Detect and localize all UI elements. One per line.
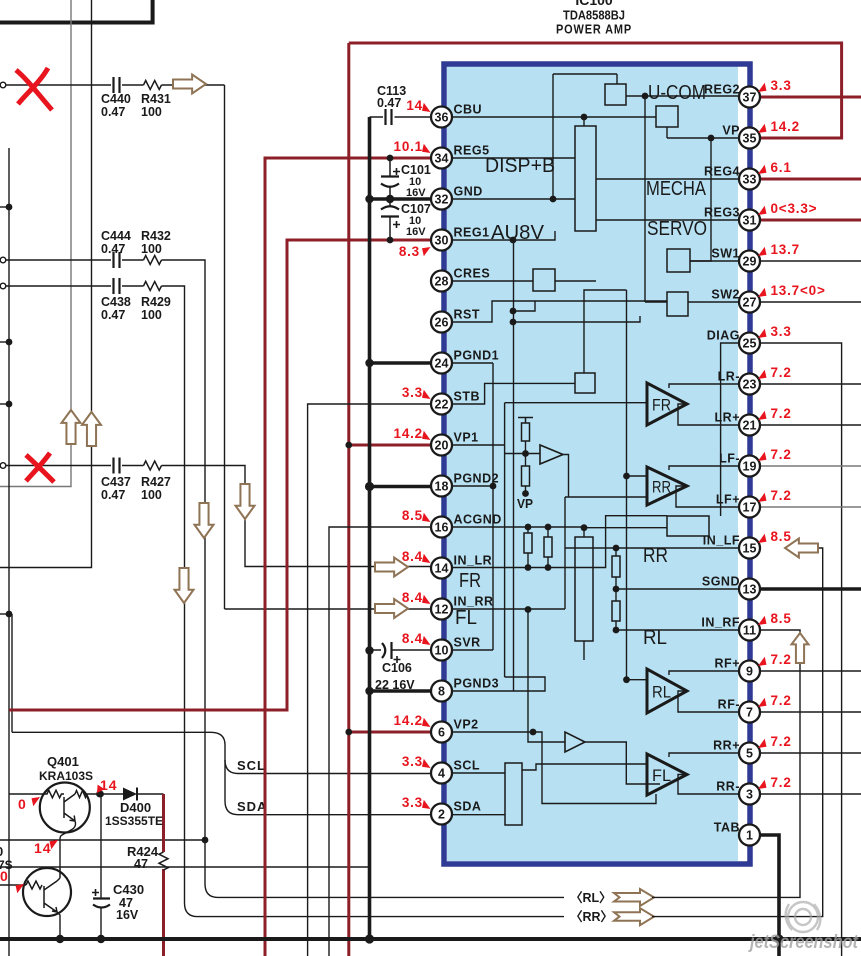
svg-text:20: 20 <box>435 439 449 453</box>
resistor R429 <box>144 282 162 291</box>
capacitor C440 <box>114 77 120 93</box>
wire LR+ to FR tip <box>678 404 738 425</box>
op-amp power RR <box>647 467 687 505</box>
transistor Q401 internals <box>43 790 89 821</box>
svg-text:23: 23 <box>743 378 757 392</box>
pin 35 voltage arrow <box>758 124 767 133</box>
block regulator rect <box>575 126 596 231</box>
svg-text:14.2: 14.2 <box>394 713 423 728</box>
svg-text:SVR: SVR <box>454 636 481 650</box>
wire VP2 internal <box>452 731 533 733</box>
junction dot GND internal <box>550 196 557 203</box>
wire pin9 RF+ out <box>760 670 861 672</box>
svg-text:8: 8 <box>438 685 445 699</box>
wire LR- to FR <box>669 384 738 388</box>
wire R429 to RR line <box>162 286 565 917</box>
block CRES square <box>533 269 555 291</box>
pin 10 voltage arrow <box>422 636 431 645</box>
wire vertical bus A lower <box>0 445 71 487</box>
svg-text:35: 35 <box>743 132 757 146</box>
pin 16 voltage arrow <box>422 513 431 522</box>
wire RST link <box>513 301 535 311</box>
wire REG4 internal <box>596 178 738 180</box>
svg-text:U-COM: U-COM <box>648 82 706 104</box>
pin 3 voltage arrow <box>758 780 767 789</box>
junction dot REG2 <box>642 93 649 100</box>
svg-text:8.5: 8.5 <box>771 611 792 626</box>
capacitor C107 plates <box>381 206 399 216</box>
svg-text:FR: FR <box>652 396 671 415</box>
capacitor C101 plates <box>381 177 399 187</box>
pin 12 circle <box>431 599 452 620</box>
wire pin27 SW2 out <box>760 301 861 303</box>
svg-text:5: 5 <box>746 747 753 761</box>
svg-text:LF+: LF+ <box>716 493 740 507</box>
svg-text:18: 18 <box>435 480 449 494</box>
pin 1 circle <box>739 825 760 846</box>
wire pin29 SW1 out <box>760 260 861 262</box>
svg-text:100: 100 <box>141 242 162 256</box>
junction dot rail TAB <box>774 934 783 943</box>
junction dot rA bottom <box>525 564 532 571</box>
pin 29 voltage arrow <box>758 247 767 256</box>
pin 34 voltage arrow <box>422 144 431 153</box>
svg-text:ACGND: ACGND <box>454 513 502 527</box>
wire SW1 internal <box>690 260 738 262</box>
svg-text:IN_RF: IN_RF <box>701 616 740 630</box>
op-amp power RL <box>647 669 687 713</box>
pin 28 circle <box>431 271 452 292</box>
IC IC100 TDA8588BJ body fill <box>447 66 738 861</box>
svg-text:〈RR〉: 〈RR〉 <box>570 909 613 924</box>
pin 14 circle <box>431 558 452 579</box>
wire pin7 RF- out <box>760 711 861 713</box>
pin 36 voltage arrow <box>422 103 431 112</box>
wire SCL internal <box>452 772 505 774</box>
svg-text:14.2: 14.2 <box>771 119 800 134</box>
svg-text:IN_LR: IN_LR <box>454 554 493 568</box>
wire x513 vertical <box>513 240 515 691</box>
svg-text:14: 14 <box>100 777 118 793</box>
svg-text:13.7<0>: 13.7<0> <box>771 283 826 298</box>
svg-text:RR-: RR- <box>716 780 740 794</box>
power wire vertical x348 <box>347 43 350 956</box>
svg-text:14: 14 <box>34 840 52 856</box>
svg-text:21: 21 <box>743 419 757 433</box>
svg-text:VP1: VP1 <box>454 431 479 445</box>
wire vertical bus B x91 <box>91 0 93 412</box>
power wire pin30 REG1 <box>9 240 431 710</box>
block SW2 square <box>667 292 688 316</box>
svg-text:14: 14 <box>435 562 449 576</box>
svg-text:SW2: SW2 <box>711 288 740 302</box>
junction dot GND bus <box>365 195 373 203</box>
pin 21 circle <box>739 415 760 436</box>
svg-text:SGND: SGND <box>702 575 740 589</box>
svg-text:14.2: 14.2 <box>394 426 423 441</box>
pin 35 circle <box>739 128 760 149</box>
voltage arrow 14 node <box>97 785 105 793</box>
op-amp power FR <box>647 383 687 425</box>
wire op1 input <box>505 453 540 455</box>
wire rC stubs <box>615 548 617 601</box>
svg-text:32: 32 <box>435 193 449 207</box>
wire C444-R432 <box>122 259 144 261</box>
wire STB internal <box>452 383 575 404</box>
pin 14 voltage arrow <box>422 554 431 563</box>
pin 34 circle <box>431 148 452 169</box>
power wire below R424 <box>162 869 165 956</box>
svg-text:6: 6 <box>438 726 445 740</box>
svg-text:7.2: 7.2 <box>771 775 792 790</box>
junction dot op1 in <box>522 450 529 457</box>
wire RST second <box>513 316 640 322</box>
wire vertical x224 to pin12 <box>224 85 226 609</box>
power wire vertical x265 from pin 34 <box>265 158 431 956</box>
svg-text:STB: STB <box>454 390 481 404</box>
wire in4 <box>6 465 111 467</box>
svg-text:30: 30 <box>435 234 449 248</box>
pin 21 voltage arrow <box>758 411 767 420</box>
svg-text:7.2: 7.2 <box>771 365 792 380</box>
svg-text:DISP+B: DISP+B <box>485 155 555 177</box>
block sub square <box>656 106 678 127</box>
svg-text:REG3: REG3 <box>704 206 740 220</box>
svg-text:0: 0 <box>0 844 3 859</box>
svg-text:29: 29 <box>743 255 757 269</box>
pin 10 circle <box>431 640 452 661</box>
wire LF- to RR <box>669 466 738 470</box>
wire pin8 PGND3 thick <box>370 689 432 693</box>
svg-text:27: 27 <box>743 296 757 310</box>
pin 6 voltage arrow <box>422 718 431 727</box>
svg-text:14: 14 <box>406 98 423 113</box>
svg-text:IN_LF: IN_LF <box>703 534 740 548</box>
pin 32 circle <box>431 189 452 210</box>
capacitor C444 <box>114 252 120 268</box>
wire IN_LR internal <box>452 516 667 568</box>
svg-text:FL: FL <box>455 607 477 629</box>
wire C430 top lead <box>100 794 102 898</box>
block resistor rC <box>612 556 620 577</box>
junction dot pin34 wire <box>387 155 394 162</box>
wire op2 out <box>584 641 660 784</box>
svg-text:PGND3: PGND3 <box>454 677 500 691</box>
svg-text:TDA8588BJ: TDA8588BJ <box>563 9 625 23</box>
svg-text:16V: 16V <box>406 226 426 238</box>
svg-text:jetScreenshot: jetScreenshot <box>747 931 859 953</box>
junction dot VP node <box>522 490 529 497</box>
svg-text:17: 17 <box>743 501 757 515</box>
junction dot <box>6 611 13 618</box>
IC IC100 border <box>444 64 750 864</box>
block resistor rA <box>524 533 532 553</box>
svg-text:25: 25 <box>743 337 757 351</box>
svg-text:SCL: SCL <box>237 758 266 773</box>
junction dot C106 <box>365 646 373 654</box>
wire pin37 REG2 out <box>760 96 861 99</box>
voltage arrow Q402 base <box>16 884 25 893</box>
junction dot VP2 <box>345 729 352 736</box>
pin 6 circle <box>431 722 452 743</box>
svg-text:3.3: 3.3 <box>402 754 423 769</box>
wire rect2 stub <box>583 528 585 537</box>
svg-text:12: 12 <box>435 603 449 617</box>
wire pin3 RR- out <box>760 793 861 795</box>
svg-text:100: 100 <box>141 488 162 502</box>
power wire pin6 VP2 branch <box>349 731 431 734</box>
svg-text:SCL: SCL <box>454 759 481 773</box>
wire pin18 PGND2 thick <box>370 485 432 489</box>
svg-text:0.47: 0.47 <box>377 96 401 110</box>
svg-text:0<3.3>: 0<3.3> <box>771 201 818 216</box>
wire STB up <box>584 290 627 373</box>
svg-text:7.2: 7.2 <box>771 652 792 667</box>
pin 5 circle <box>739 743 760 764</box>
svg-text:C101: C101 <box>401 163 431 177</box>
op-amp op2 <box>565 732 585 752</box>
svg-text:Q401: Q401 <box>47 754 79 769</box>
svg-text:SDA: SDA <box>237 799 267 814</box>
diode D400 <box>123 788 137 801</box>
svg-text:〈RL〉: 〈RL〉 <box>570 890 612 905</box>
svg-text:3.3: 3.3 <box>771 324 792 339</box>
wire GND internal <box>452 198 575 200</box>
pin 16 circle <box>431 517 452 538</box>
svg-text:C106: C106 <box>382 661 412 675</box>
svg-text:3.3: 3.3 <box>402 795 423 810</box>
svg-text:0.47: 0.47 <box>101 242 125 256</box>
wire rB stubs <box>547 527 549 568</box>
junction dot PGND3 <box>365 687 373 695</box>
svg-text:DIAG: DIAG <box>707 329 740 343</box>
block resistor rD <box>612 601 620 621</box>
pin 12 voltage arrow <box>422 595 431 604</box>
wire rD stub <box>615 621 617 630</box>
pin 36 circle <box>431 107 452 128</box>
svg-text:TAB: TAB <box>714 821 740 835</box>
pin 27 voltage arrow <box>758 288 767 297</box>
svg-text:SDA: SDA <box>454 800 482 814</box>
svg-text:RL: RL <box>643 627 667 649</box>
pin 19 circle <box>739 456 760 477</box>
wire PGND3 internal <box>452 677 545 691</box>
pin 15 circle <box>739 538 760 559</box>
signal arrow right R431 <box>173 75 206 94</box>
wire vertical bus A x71 <box>70 0 72 410</box>
capacitor C113 <box>386 109 392 125</box>
wire pin22 STB external <box>308 404 431 956</box>
wire Q401 base feed <box>9 793 43 795</box>
junction dot PGND2 <box>365 482 374 491</box>
node stub y207 <box>0 206 9 208</box>
wire vertical x12 <box>11 614 13 732</box>
wire SCL branch <box>225 760 431 774</box>
svg-text:10.1: 10.1 <box>394 139 423 154</box>
block resistor r2 <box>522 466 530 486</box>
wire pin5 RR+ out <box>760 752 861 754</box>
wire x565 riser <box>565 497 647 609</box>
wire RF- to RL tip <box>678 691 738 712</box>
svg-text:22: 22 <box>435 398 449 412</box>
pin 24 circle <box>431 353 452 374</box>
terminal in2 <box>0 257 6 263</box>
wire FR mid input <box>505 402 647 404</box>
capacitor C430 plates <box>93 899 110 908</box>
wire GND thick <box>370 197 432 201</box>
svg-text:REG4: REG4 <box>704 165 740 179</box>
pin 31 voltage arrow <box>758 206 767 215</box>
transistor Q401 body <box>40 783 90 833</box>
svg-text:24: 24 <box>435 357 449 371</box>
wire TAB pin 1 to rail <box>760 835 779 956</box>
wire thick top-left <box>0 0 153 23</box>
junction dot pin30 wire <box>387 237 394 244</box>
junction dot 14V node <box>96 791 103 798</box>
wire D400 cathode <box>137 793 164 795</box>
junction dot rail C430 <box>97 935 105 943</box>
wire branch y840 <box>0 839 205 841</box>
power wire pin20 VP1 branch <box>349 444 431 447</box>
signal arrow right pin12 <box>375 599 408 618</box>
wire C440-R431 <box>122 84 144 86</box>
junction dot rail bus <box>365 934 374 943</box>
pin 7 voltage arrow <box>758 698 767 707</box>
pin 20 circle <box>431 435 452 456</box>
svg-text:IN_RR: IN_RR <box>454 595 494 609</box>
wire ACGND internal <box>452 526 667 529</box>
junction dot in_rr <box>525 606 532 613</box>
svg-text:MECHA: MECHA <box>646 178 707 200</box>
terminal in3 <box>0 283 6 289</box>
wire R432 to RL line <box>162 260 565 897</box>
svg-text:34: 34 <box>435 152 449 166</box>
node stub y404 <box>0 403 9 405</box>
junction dot CBU <box>581 114 588 121</box>
junction dot RST b <box>510 319 517 326</box>
junction dot RST a <box>510 308 517 315</box>
wire REG1 internal <box>452 231 555 240</box>
wire in1 <box>6 84 111 86</box>
svg-text:PGND1: PGND1 <box>454 349 500 363</box>
svg-text:16: 16 <box>435 521 449 535</box>
svg-text:3.3: 3.3 <box>771 78 792 93</box>
pin 5 voltage arrow <box>758 739 767 748</box>
pin 20 voltage arrow <box>422 431 431 440</box>
pin 15 voltage arrow <box>758 534 767 543</box>
op-amp power FL <box>647 754 687 795</box>
wire RL to pin 11 riser <box>652 630 800 897</box>
wire op1 output <box>563 455 569 498</box>
resistor R432 <box>144 256 162 265</box>
wire IN_RF internal <box>616 629 738 631</box>
svg-text:REG5: REG5 <box>454 144 490 158</box>
pin 17 voltage arrow <box>758 493 767 502</box>
wire ground bus vertical x369 <box>368 117 372 939</box>
svg-text:R429: R429 <box>141 295 171 309</box>
wire op2 feed <box>528 610 565 743</box>
block STB square <box>575 373 595 393</box>
junction dot rD bottom <box>613 627 620 634</box>
wire Q2 base feed <box>0 884 26 886</box>
wire IN_RR internal <box>452 608 565 610</box>
wire IN_LF internal <box>565 547 739 549</box>
svg-text:RF-: RF- <box>718 698 740 712</box>
svg-text:28: 28 <box>435 275 449 289</box>
block I2C interface rect <box>505 763 522 825</box>
pin 3 circle <box>739 784 760 805</box>
svg-text:8.5: 8.5 <box>771 529 792 544</box>
pin 11 voltage arrow <box>758 616 767 625</box>
junction dot C430 top <box>97 791 104 798</box>
wire VP to SW1 <box>690 138 711 261</box>
signal arrow down on pin14 feed <box>236 484 255 519</box>
svg-text:7.2: 7.2 <box>771 488 792 503</box>
wire Q401 emitter <box>60 821 76 868</box>
wire r1-r2 <box>525 441 527 466</box>
wire VP internal <box>667 127 738 138</box>
pin 29 circle <box>739 251 760 272</box>
junction dot rail Q2 <box>56 935 64 943</box>
resistor R427 <box>144 461 162 470</box>
pin 23 circle <box>739 374 760 395</box>
wire y867 to VP ground bus <box>0 866 370 868</box>
svg-text:7.2: 7.2 <box>771 734 792 749</box>
terminal in4 <box>0 463 6 469</box>
svg-text:8.5: 8.5 <box>402 508 423 523</box>
ground rail bottom thick <box>0 937 861 941</box>
pin 30 circle <box>431 230 452 251</box>
svg-text:9: 9 <box>746 665 753 679</box>
svg-text:7.2: 7.2 <box>771 406 792 421</box>
pin 37 circle <box>739 87 760 108</box>
wire rA stubs <box>527 527 529 568</box>
svg-text:37: 37 <box>743 91 757 105</box>
capacitor C437 <box>114 458 120 474</box>
svg-text:KRA103S: KRA103S <box>39 769 93 783</box>
svg-text:C430: C430 <box>113 882 144 897</box>
junction dot VP2 internal <box>530 729 537 736</box>
signal arrow left pin15 <box>785 539 818 558</box>
wire PGND internal <box>452 363 493 650</box>
pin 22 voltage arrow <box>422 390 431 399</box>
wire RR upper input <box>627 475 648 477</box>
pin 13 circle <box>739 579 760 600</box>
block SW1 square <box>667 249 690 272</box>
svg-text:R427: R427 <box>141 475 171 489</box>
svg-text:SW1: SW1 <box>711 247 740 261</box>
wire pin19 LF- out <box>760 465 861 467</box>
junction dot rC top <box>613 545 620 552</box>
capacitor C107 polarity <box>393 221 400 228</box>
wire DIAG internal <box>721 343 738 516</box>
wire CRES right <box>555 280 596 282</box>
svg-text:3.3: 3.3 <box>402 385 423 400</box>
voltage arrow 14 emitter <box>50 840 59 849</box>
capacitor C107 leads <box>389 199 391 240</box>
pin 18 circle <box>431 476 452 497</box>
wire R427 to pin 14 <box>162 466 432 567</box>
svg-text:GND: GND <box>454 185 483 199</box>
red cross mark 2 <box>26 453 54 482</box>
junction dot GND cap <box>386 195 394 203</box>
capacitor C106 polarity <box>394 656 401 663</box>
wire SDA curved from left <box>12 732 431 814</box>
wire pin24 PGND1 thick <box>370 361 432 365</box>
svg-text:VP: VP <box>722 124 740 138</box>
junction dot acgnd a <box>525 524 532 531</box>
pin 25 voltage arrow <box>758 329 767 338</box>
